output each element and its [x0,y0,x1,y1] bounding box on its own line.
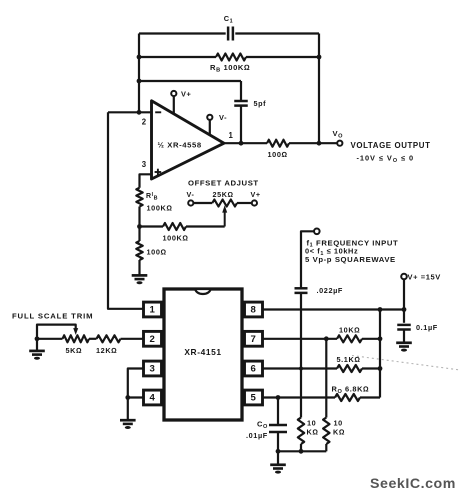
svg-text:-10V ≤ VO ≤ 0: -10V ≤ VO ≤ 0 [357,154,415,164]
wire: right bus vertical [379,310,381,398]
node: pin 6 input junction [299,367,303,371]
IC pin 1 [144,302,162,317]
node: 5pF-left junction [137,79,142,84]
svg-text:OFFSET ADJUST: OFFSET ADJUST [188,179,259,188]
op-amp U1 (1/2 XR-4558) [152,101,225,179]
svg-text:XR-4151: XR-4151 [184,347,221,357]
wire: rail to ground [277,451,279,465]
wire: pin 7 row [263,338,338,340]
capacitor .022uF [295,286,343,295]
svg-text:10KΩ: 10KΩ [339,325,360,334]
svg-text:4: 4 [150,393,156,404]
wire: RIB to summing junction [138,207,140,227]
svg-text:6: 6 [251,364,257,375]
node: pin 4 junction [125,395,130,400]
potentiometer 5K&#8486; full scale trim [37,325,89,355]
svg-text:VOLTAGE OUTPUT: VOLTAGE OUTPUT [351,141,431,150]
svg-text:10: 10 [307,419,316,428]
IC pin 3 [144,361,162,376]
node: pin 5 C0 junction [276,395,281,400]
svg-text:V+ =15V: V+ =15V [408,273,441,282]
wire: op-amp output to VO [224,142,337,144]
resistor 5.1K&#8486; (pin 6) [337,355,381,372]
capacitor 0.1uF bypass [397,323,438,332]
pin label 3 [142,160,147,169]
IC U2 XR-4151 body [164,289,242,420]
wire: inverting input to IC pin 1 [108,112,144,308]
node: RB-left junction [137,55,142,60]
wire: coupling cap to pin 6 node [300,293,302,369]
svg-text:5 Vp-p SQUAREWAVE: 5 Vp-p SQUAREWAVE [305,255,396,264]
resistor 100 ohm (to ground) [136,241,166,260]
capacitor 5pF [234,99,266,108]
terminal f1 frequency input [314,229,320,235]
wire: inverting input [108,111,152,113]
node: RB-right junction [317,55,322,60]
svg-text:0.1µF: 0.1µF [416,323,438,332]
svg-text:100Ω: 100Ω [268,150,288,159]
wire: 100 ohm to ground [138,260,140,275]
text: OFFSET ADJUST [188,179,259,188]
wire: pin6 node down to bias resistor [300,369,302,418]
svg-text:3: 3 [142,160,147,169]
svg-text:RO 6.8KΩ: RO 6.8KΩ [332,384,370,395]
ground (bottom rail) [270,465,286,474]
svg-text:5KΩ: 5KΩ [66,346,83,355]
IC pin 5 [245,390,263,405]
power terminal V+ (op-amp) [171,90,191,115]
resistor RIB 100K&#8486; [136,188,172,213]
svg-text:2: 2 [142,118,147,127]
pin label 1 [229,131,234,140]
svg-text:V+: V+ [181,90,192,99]
wire: pin 4 to ground [127,398,129,421]
wire: V+ vertical [403,279,405,323]
svg-text:V-: V- [187,190,195,199]
svg-text:KΩ: KΩ [333,428,345,437]
wire: bias bus vertical [325,339,327,418]
IC pin 8 [245,302,263,317]
node: inverting input junction [137,110,142,115]
wire: trim to ground [36,339,38,351]
svg-text:25KΩ: 25KΩ [213,190,234,199]
text: VOLTAGE OUTPUT [351,141,431,150]
pin label 2 [142,118,147,127]
node: pin7 bias junction [324,336,329,341]
wire: C1 top feedback row [139,32,319,34]
wire: RB feedback row [139,56,319,58]
wire: trim row [37,338,144,340]
wire: 5pF branch [139,81,241,101]
svg-text:½ XR-4558: ½ XR-4558 [158,141,202,150]
wire: pin 8 row to V+ [263,308,405,310]
resistor 100 ohm (output) [267,140,289,159]
wire: bias lower to bottom rail [325,444,327,451]
text: FULL SCALE TRIM [12,311,93,320]
IC pin 2 [144,331,162,346]
svg-text:.01µF: .01µF [246,431,268,440]
ground (op-amp bias) [132,275,148,284]
wire: noninverting input [140,174,152,188]
svg-text:100KΩ: 100KΩ [163,234,189,243]
IC pin 6 [245,361,263,376]
wire: pin 5 row [263,396,336,398]
ground (V+ bypass) [396,343,412,352]
svg-text:5.1KΩ: 5.1KΩ [337,355,361,364]
svg-text:3: 3 [150,364,156,375]
svg-text:5pf: 5pf [254,99,267,108]
svg-text:5: 5 [251,393,257,404]
node: feedback-output junction [317,141,322,146]
wire: bypass cap to ground [403,330,405,343]
wire: input to coupling cap [301,231,314,288]
svg-text:V+: V+ [251,190,261,199]
svg-text:10: 10 [334,419,343,428]
svg-text:1: 1 [150,305,156,316]
svg-text:RB 100KΩ: RB 100KΩ [210,63,250,74]
potentiometer 25K&#8486; offset adjust [187,190,261,227]
text: 5 Vp-p SQUAREWAVE [305,255,396,264]
node: pin8 bus junction [378,307,383,312]
capacitor C1 [224,14,234,41]
terminal VO [333,129,344,146]
resistor RO 6.8K&#8486; (pin 5) [332,384,381,401]
node: offset summing junction [137,224,142,229]
svg-text:KΩ: KΩ [307,428,319,437]
wire: offset row [140,225,225,227]
wire: pin 6 row [263,367,338,369]
svg-text:V-: V- [219,113,227,122]
svg-text:2: 2 [150,334,156,345]
wire: pin 3 to pin 4 [128,369,144,398]
svg-text:.022µF: .022µF [317,286,343,295]
resistor 12K&#8486; [96,335,121,355]
resistor 100K&#8486; (offset) [163,223,189,243]
terminal V+ 15V [401,273,441,282]
resistor RB 100K&#8486; [210,54,250,74]
ground (full scale trim) [29,351,45,360]
wire: C0 to bottom rail [277,433,279,451]
svg-text:1: 1 [229,131,234,140]
resistor 10K&#8486; (input bias lower) [298,418,319,445]
svg-text:FULL SCALE TRIM: FULL SCALE TRIM [12,311,93,320]
node: 10K bus junction [378,336,383,341]
node: rail bias junction [299,449,304,454]
text: output range [357,154,415,164]
wire: 5pF to output node [240,106,242,144]
wire: left feedback vertical [138,34,140,113]
svg-text:12KΩ: 12KΩ [96,346,117,355]
power terminal V- (op-amp) [207,113,227,135]
ground (pins 3-4) [120,420,136,429]
text: f1 FREQUENCY INPUT [307,238,399,248]
node: trim junction [35,336,40,341]
node: rail C0 junction [276,449,281,454]
svg-text:100Ω: 100Ω [147,248,167,257]
node: 5.1K bus junction [378,366,383,371]
svg-text:7: 7 [251,334,257,345]
wire: bottom rail [278,450,326,452]
svg-text:SeekIC.com: SeekIC.com [370,476,456,492]
watermark SeekIC.com [370,476,456,492]
IC pin 4 [144,390,162,405]
resistor 10K&#8486; (pin 7) [337,325,380,342]
node: compensation junction [239,141,244,146]
svg-text:100KΩ: 100KΩ [147,204,173,213]
node: V+ pin8 junction [402,307,407,312]
svg-text:8: 8 [251,305,257,316]
resistor 10K&#8486; (bias lower) [323,418,345,445]
wire: right feedback vertical [318,34,320,144]
capacitor C0 .01uF [246,398,287,440]
wire: 100 ohm upper stub [138,227,140,242]
IC pin 7 [245,331,263,346]
wire: bias resistor to bottom rail [300,444,302,451]
text: input freq range [305,247,358,257]
